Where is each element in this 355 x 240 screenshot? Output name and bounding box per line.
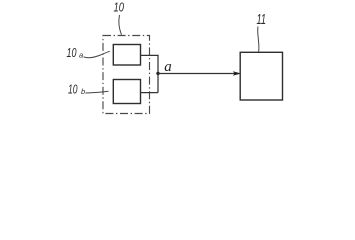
- leader line for 10: [119, 15, 122, 35]
- svg-text:a: a: [79, 51, 83, 60]
- svg-text:10: 10: [114, 0, 125, 15]
- svg-text:b: b: [81, 87, 85, 96]
- leader line for 10b: [86, 91, 109, 93]
- wire from block 10a output: [141, 54, 159, 56]
- svg-text:11: 11: [257, 11, 267, 28]
- wire joining the two outputs: [157, 55, 159, 92]
- dashed enclosure box 10: [103, 36, 150, 114]
- wire from block 10b output: [140, 92, 158, 94]
- leader line for 10a: [84, 51, 110, 57]
- block 10a (upper inner box): [113, 45, 140, 66]
- block 10b (lower inner box): [113, 80, 140, 104]
- wire arrow from node a to block 11: [158, 73, 236, 75]
- block 11: [240, 52, 282, 100]
- svg-text:10: 10: [68, 83, 78, 97]
- node a junction dot: [156, 72, 159, 75]
- leader line for 11: [258, 27, 259, 52]
- svg-text:10: 10: [67, 46, 77, 60]
- svg-text:a: a: [164, 59, 172, 75]
